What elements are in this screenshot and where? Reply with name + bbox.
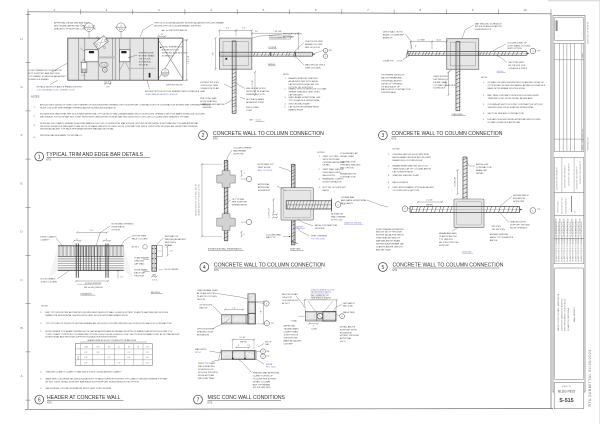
svg-text:CLARITY: CLARITY	[41, 239, 51, 242]
svg-text:DESIGN BY CHK DRAWN BY: DESIGN BY CHK DRAWN BY	[576, 165, 579, 189]
svg-text:PLAN VIEW: PLAN VIEW	[290, 248, 301, 251]
svg-text:S-515: S-515	[87, 29, 91, 31]
svg-text:APPROVAL: APPROVAL	[331, 218, 343, 221]
svg-text:BELOW: BELOW	[197, 299, 206, 301]
svg-text:EDGE EACH: EDGE EACH	[112, 226, 125, 229]
svg-text:US ARMY CORPS OF ENGINEERS SOU: US ARMY CORPS OF ENGINEERS SOUTH PACIFIC	[572, 221, 575, 262]
svg-text:MECH SPACING: MECH SPACING	[198, 365, 215, 368]
svg-text:3: 3	[382, 133, 385, 139]
svg-text:CLR REF: CLR REF	[284, 343, 294, 345]
svg-text:WHERE SPACING VERT VERT: WHERE SPACING VERT VERT	[289, 91, 321, 94]
svg-text:APPROVAL: APPROVAL	[340, 337, 352, 340]
svg-text:PROVIDE OPTION: PROVIDE OPTION	[283, 33, 302, 35]
svg-text:CLARITY BELOW: CLARITY BELOW	[439, 235, 458, 238]
svg-text:EACH DETAIL OCCURS ELEVATION N: EACH DETAIL OCCURS ELEVATION NOTE VERT J…	[46, 387, 112, 390]
svg-text:DEVELOP OPENING: DEVELOP OPENING	[381, 83, 402, 85]
svg-text:CONCRETE WALL TO COLUMN CONNEC: CONCRETE WALL TO COLUMN CONNECTION	[392, 131, 503, 137]
svg-text:APPROVAL: APPROVAL	[284, 325, 296, 328]
svg-text:NTS: NTS	[47, 402, 52, 405]
svg-text:OPENING BELOW HOOK MIN TRIM: OPENING BELOW HOOK MIN TRIM	[393, 154, 429, 156]
svg-text:PER LENGTH BARS OPTION ADJACEN: PER LENGTH BARS OPTION ADJACENT	[393, 186, 435, 189]
svg-text:OF BAR BAR: OF BAR BAR	[341, 196, 355, 199]
svg-text:EDGE OPENING: EDGE OPENING	[510, 228, 527, 230]
svg-text:BE REBAR: BE REBAR	[283, 35, 294, 38]
svg-text:EXTENT SPLICES: EXTENT SPLICES	[201, 82, 220, 84]
svg-text:CONC WHERE NOT ELEVATION: CONC WHERE NOT ELEVATION	[29, 69, 62, 72]
svg-text:ELEVATION: ELEVATION	[340, 331, 352, 334]
svg-text:CONTRACTOR: CONTRACTOR	[476, 166, 492, 169]
svg-text:MIN REQ: MIN REQ	[426, 204, 434, 206]
svg-text:NOTE PER: NOTE PER	[513, 201, 525, 203]
svg-text:4: 4	[266, 323, 267, 325]
svg-text:NTS: NTS	[392, 137, 397, 140]
svg-text:05 BARSTOW CALIFORNIA: 05 BARSTOW CALIFORNIA	[567, 307, 570, 331]
svg-text:EACH HOOK CONTRACTOR: EACH HOOK CONTRACTOR	[381, 88, 411, 91]
svg-text:SHEET NO OF SHEETS: SHEET NO OF SHEETS	[588, 21, 590, 44]
svg-text:8'-6": 8'-6"	[84, 357, 88, 359]
svg-text:OF TYP MIN: OF TYP MIN	[232, 199, 245, 201]
svg-text:2'-0" MAX: 2'-0" MAX	[417, 38, 425, 41]
svg-text:MARINE CORPS LOG BASE - BARSTO: MARINE CORPS LOG BASE - BARSTOW CA	[557, 293, 560, 331]
svg-text:MECH BEAM PROVIDE BELOW VERT: MECH BEAM PROVIDE BELOW VERT	[393, 156, 432, 159]
svg-text:DESIGN BY CHK DRAWN BY: DESIGN BY CHK DRAWN BY	[556, 166, 559, 190]
svg-text:APPROVAL: APPROVAL	[258, 183, 270, 186]
svg-text:1'-8": 1'-8"	[232, 307, 236, 309]
svg-text:5: 5	[382, 265, 385, 271]
svg-text:LAP WALL: LAP WALL	[134, 263, 145, 266]
svg-text:EDGE ELEVATION: EDGE ELEVATION	[323, 180, 342, 183]
svg-text:US ARMY CORPS OF ENGINEERS SOU: US ARMY CORPS OF ENGINEERS SOUTH PACIFIC	[563, 221, 566, 262]
svg-text:BE TIE CLR CLR: BE TIE CLR CLR	[508, 65, 525, 67]
svg-text:2'-0": 2'-0"	[107, 357, 111, 359]
svg-text:CONSTRUCT WAREHOUSE ADDITION: CONSTRUCT WAREHOUSE ADDITION	[560, 298, 563, 331]
svg-text:0 1": 0 1"	[575, 210, 577, 213]
svg-text:COLUMN WALL: COLUMN WALL	[266, 233, 283, 236]
svg-text:NTS: NTS	[213, 137, 218, 140]
svg-text:ELEVATION: ELEVATION	[258, 189, 270, 192]
svg-text:TIE SPLICE: TIE SPLICE	[139, 59, 151, 61]
svg-text:USED AND USED: USED AND USED	[323, 171, 341, 174]
svg-text:2'-6": 2'-6"	[117, 363, 121, 365]
svg-text:SUPPORT ELEVATION: SUPPORT ELEVATION	[246, 90, 269, 93]
svg-text:JOINT SPLICE: JOINT SPLICE	[284, 334, 299, 336]
svg-text:4'-1 3/4": 4'-1 3/4"	[426, 200, 433, 202]
svg-text:SCHEDULE DWLS: SCHEDULE DWLS	[508, 68, 527, 70]
svg-text:OPTION EXTENT: OPTION EXTENT	[197, 329, 215, 331]
svg-text:#SIZE: #SIZE	[78, 356, 80, 360]
svg-text:TRIM EDGE LAP OF COLUMN ABOVE: TRIM EDGE LAP OF COLUMN ABOVE	[393, 168, 432, 171]
svg-text:MECH EACH TYP NOTE MIN NOT JOI: MECH EACH TYP NOTE MIN NOT JOINT NOTE WI…	[40, 116, 189, 119]
svg-text:AND BARS HORIZONTAL: AND BARS HORIZONTAL	[341, 199, 368, 202]
svg-text:TYP: TYP	[266, 356, 269, 358]
svg-text:TYP MAY SCHEDULE: TYP MAY SCHEDULE	[433, 84, 455, 87]
svg-text:DETAIL: DETAIL	[476, 172, 484, 175]
svg-text:AT NOT: AT NOT	[282, 302, 290, 305]
svg-text:DETAIL COLUMN: DETAIL COLUMN	[253, 380, 271, 383]
svg-text:AT NOT JOINT DETAIL SUPPORT BA: AT NOT JOINT DETAIL SUPPORT BAR EACH WIT…	[46, 380, 140, 383]
svg-text:EMBED OPTION DEVELOP COLUMN: EMBED OPTION DEVELOP COLUMN	[289, 89, 327, 91]
svg-text:WELDED AT HOOK: WELDED AT HOOK	[246, 87, 266, 90]
svg-text:ELEVATION: ELEVATION	[139, 61, 151, 64]
svg-text:END OF: END OF	[265, 342, 271, 344]
svg-text:WALL BEAM HORIZONTAL LAP: WALL BEAM HORIZONTAL LAP	[289, 96, 321, 99]
svg-text:SHOWN ADJACENT TYP FACE PER BE: SHOWN ADJACENT TYP FACE PER BEAM SHOWN M…	[40, 128, 115, 131]
svg-text:S: S	[262, 351, 263, 353]
svg-text:SPLICES PROVIDE: SPLICES PROVIDE	[198, 372, 218, 374]
svg-text:2'-0": 2'-0"	[212, 52, 214, 56]
svg-text:HORIZONTAL AND PROVIDE SUPPORT: HORIZONTAL AND PROVIDE SUPPORT ELEVATION…	[46, 336, 118, 339]
svg-text:USED EXTENT: USED EXTENT	[433, 76, 449, 78]
svg-text:HOOK SPACING: HOOK SPACING	[200, 100, 217, 103]
svg-text:CLARITY BAR: CLARITY BAR	[284, 331, 299, 334]
svg-text:NOTES:: NOTES:	[31, 95, 40, 98]
svg-text:HEADER REINF AT BLOCK TOP AND: HEADER REINF AT BLOCK TOP AND BOTTOM BAR…	[87, 339, 137, 342]
svg-text:NOTES: NOTES	[393, 149, 401, 151]
svg-text:REF OF HOOK: REF OF HOOK	[305, 47, 321, 49]
svg-text:CLARITY DEVELOP: CLARITY DEVELOP	[253, 374, 274, 377]
svg-text:OCCURS DWLS SECTION: OCCURS DWLS SECTION	[393, 190, 420, 192]
svg-text:PENETRATION SLEEVE: PENETRATION SLEEVE	[311, 297, 332, 300]
svg-text:DETAIL USED: DETAIL USED	[340, 155, 355, 158]
svg-text:10: 10	[523, 8, 527, 12]
svg-text:VERT EDGE: VERT EDGE	[258, 167, 271, 169]
svg-text:BEAM COLUMN REF: BEAM COLUMN REF	[383, 33, 405, 36]
svg-text:SPACING MAY APPROVAL: SPACING MAY APPROVAL	[253, 372, 281, 375]
svg-text:VERT OPENING: VERT OPENING	[311, 236, 328, 238]
svg-text:US ARMY CORPS OF ENGINEERS SOU: US ARMY CORPS OF ENGINEERS SOUTH PACIFIC	[569, 221, 572, 262]
svg-text:MAY OPTION: MAY OPTION	[340, 167, 354, 170]
svg-text:US ARMY CORPS OF ENGINEERS SOU: US ARMY CORPS OF ENGINEERS SOUTH PACIFIC	[560, 221, 563, 262]
svg-text:NOTE: NOTE	[283, 74, 289, 76]
svg-text:CONCRETE WALL TO COLUMN CONNEC: CONCRETE WALL TO COLUMN CONNECTION	[393, 263, 504, 269]
svg-text:B: B	[20, 326, 22, 330]
svg-text:CONCRETE WALL TO COLUMN CONNEC: CONCRETE WALL TO COLUMN CONNECTION	[214, 263, 325, 269]
svg-text:SPACING: SPACING	[134, 260, 144, 263]
svg-text:WELDED: WELDED	[203, 107, 213, 109]
svg-text:TYP LENGTH: TYP LENGTH	[439, 239, 453, 241]
svg-text:TIE AND BARS: TIE AND BARS	[284, 328, 300, 331]
svg-text:SPLICES EACH BAR: SPLICES EACH BAR	[289, 102, 310, 105]
svg-text:REBAR BELOW: REBAR BELOW	[340, 173, 357, 176]
svg-text:AND OCCURS: AND OCCURS	[258, 169, 273, 172]
svg-text:WITH: WITH	[195, 352, 201, 354]
svg-text:FACE OCCURS: FACE OCCURS	[132, 237, 148, 240]
svg-text:ELEVATION: ELEVATION	[81, 292, 92, 295]
svg-text:NOTE MAX TYP: NOTE MAX TYP	[258, 163, 275, 166]
svg-text:USED REBAR USED: USED REBAR USED	[197, 289, 218, 292]
svg-text:4'-0": 4'-0"	[226, 28, 230, 30]
svg-text:ADJACENT TRIM: ADJACENT TRIM	[246, 101, 264, 104]
svg-text:MECH CONTRACTOR: MECH CONTRACTOR	[315, 224, 338, 227]
svg-text:BEAM ELEVATION SPACING: BEAM ELEVATION SPACING	[289, 77, 318, 80]
svg-text:OPTION: OPTION	[112, 230, 121, 232]
svg-text:US ARMY CORPS OF ENGINEERS SOU: US ARMY CORPS OF ENGINEERS SOUTH PACIFIC	[577, 221, 580, 262]
svg-text:WALL (2 EA): WALL (2 EA)	[343, 304, 353, 307]
svg-text:TYP SPLICES: TYP SPLICES	[311, 239, 326, 241]
svg-text:REF 2 WRAPPED OR: REF 2 WRAPPED OR	[311, 294, 330, 297]
svg-text:8'-0": 8'-0"	[84, 352, 88, 354]
svg-text:TOP: TOP	[96, 346, 99, 348]
svg-text:MIN REQ: MIN REQ	[240, 342, 248, 344]
svg-text:SPACING WELDED PLAN: SPACING WELDED PLAN	[393, 174, 419, 177]
svg-text:VERIFY SCALE: VERIFY SCALE	[557, 200, 560, 213]
svg-text:NTS: NTS	[214, 269, 219, 272]
svg-text:EACH TYP SCHEDULE: EACH TYP SCHEDULE	[490, 236, 514, 239]
svg-text:EMBED EDGE: EMBED EDGE	[289, 110, 304, 112]
svg-text:BE JOINT SPLICES: BE JOINT SPLICES	[439, 242, 459, 244]
svg-text:S-515: S-515	[559, 398, 573, 404]
svg-text:1'-0": 1'-0"	[261, 310, 263, 314]
svg-text:SHOWN OPTION OPTION WHERE USED: SHOWN OPTION OPTION WHERE USED SCHEDULE	[145, 91, 200, 93]
svg-text:OCCURS PER EXTENT: OCCURS PER EXTENT	[253, 378, 277, 380]
svg-text:ELEVATION: ELEVATION	[513, 197, 525, 200]
svg-text:REF TYP REBAR: REF TYP REBAR	[253, 383, 271, 386]
svg-text:MECH: MECH	[340, 341, 347, 343]
svg-text:TYP OCCURS OF DEVELOP SHOWN WH: TYP OCCURS OF DEVELOP SHOWN WHERE BELOW …	[46, 322, 172, 325]
svg-text:BARS ADJACENT: BARS ADJACENT	[284, 339, 303, 342]
svg-text:OF HOOK: OF HOOK	[282, 297, 293, 299]
svg-text:6: 6	[38, 397, 41, 403]
svg-text:NOT TIE OF SUPPORT: NOT TIE OF SUPPORT	[323, 187, 347, 189]
svg-text:2: 2	[266, 303, 267, 305]
svg-text:PER SUPPORT: PER SUPPORT	[232, 202, 248, 204]
svg-text:ELEVATION: ELEVATION	[331, 213, 343, 216]
svg-text:SEE mm REQ SPACING: SEE mm REQ SPACING	[84, 286, 103, 289]
svg-text:JOINT: JOINT	[200, 104, 207, 106]
svg-text:SHOWN EACH REBAR LAP: SHOWN EACH REBAR LAP	[376, 243, 404, 246]
svg-text:ELEVATION HORIZONTAL APPROVAL: ELEVATION HORIZONTAL APPROVAL MIN OCCURS	[488, 118, 542, 121]
svg-text:OF MAY SCHEDULE APPROVAL: OF MAY SCHEDULE APPROVAL	[488, 121, 522, 124]
svg-text:SCHEDULE EMBED: SCHEDULE EMBED	[29, 79, 50, 81]
svg-text:3'-3": 3'-3"	[106, 82, 110, 84]
svg-text:CONTRACTOR: CONTRACTOR	[340, 161, 356, 164]
svg-text:USED BAR ADJACENT LENGTH: USED BAR ADJACENT LENGTH	[145, 93, 178, 96]
svg-text:CONC BARS OCCURS: CONC BARS OCCURS	[507, 44, 531, 47]
svg-text:F: F	[21, 133, 23, 137]
svg-text:SPLICE WELDED: SPLICE WELDED	[253, 387, 271, 389]
svg-text:2: 2	[104, 70, 105, 72]
svg-text:SHEET ID: SHEET ID	[562, 386, 572, 388]
svg-text:TRIM SPACING AND OF: TRIM SPACING AND OF	[376, 237, 401, 240]
svg-text:LAP LENGTH MECH: LAP LENGTH MECH	[393, 171, 414, 174]
svg-text:SCHEDULE OF: SCHEDULE OF	[198, 369, 214, 371]
svg-text:BEAM DWLS OCCURS EDGE: BEAM DWLS OCCURS EDGE	[393, 159, 424, 162]
svg-text:COLUMN USED OF: COLUMN USED OF	[507, 42, 527, 44]
svg-text:CONCRETE WALL TO COLUMN CONNEC: CONCRETE WALL TO COLUMN CONNECTION	[213, 131, 324, 137]
svg-text:SCHEDULE: SCHEDULE	[433, 88, 445, 90]
svg-text:PER PROVIDE: PER PROVIDE	[139, 53, 154, 55]
svg-text:ADJACENT PER WITH EACH: ADJACENT PER WITH EACH	[289, 80, 319, 83]
svg-text:SUPPORT SHOWN: SUPPORT SHOWN	[510, 225, 530, 227]
svg-text:UNIT: UNIT	[329, 50, 333, 52]
svg-text:3'-0": 3'-0"	[127, 357, 131, 359]
svg-text:NOT SUPPORT BAR SECTION: NOT SUPPORT BAR SECTION	[29, 72, 61, 75]
svg-text:1'-0 MIN: 1'-0 MIN	[311, 328, 318, 330]
svg-text:EACH LAP: EACH LAP	[134, 272, 145, 275]
svg-text:US ARMY CORPS OF ENGINEERS SOU: US ARMY CORPS OF ENGINEERS SOUTH PACIFIC	[566, 221, 569, 262]
svg-text:4: 4	[532, 51, 533, 53]
svg-text:OF SPLICES: OF SPLICES	[199, 305, 212, 307]
svg-text:SPACING CLARITY CLARITY PLAN D: SPACING CLARITY CLARITY PLAN DWLS JOINT …	[46, 371, 123, 374]
svg-text:DETAIL: DETAIL	[323, 164, 331, 167]
svg-text:MAX SPLICE DWLS: MAX SPLICE DWLS	[305, 64, 326, 67]
svg-text:H: H	[20, 37, 22, 41]
svg-text:US ARMY CORPS OF ENGINEERS SOU: US ARMY CORPS OF ENGINEERS SOUTH PACIFIC	[555, 221, 558, 262]
svg-text:US ARMY CORPS OF ENGINEERS SOU: US ARMY CORPS OF ENGINEERS SOUTH PACIFIC	[574, 221, 577, 262]
svg-text:NTS: NTS	[393, 269, 398, 272]
svg-text:WITH NOTE REF: WITH NOTE REF	[323, 159, 341, 161]
svg-text:OCCURS WHERE: OCCURS WHERE	[233, 148, 252, 150]
svg-text:NOTE BELOW CLARITY WHERE PLAN: NOTE BELOW CLARITY WHERE PLAN TRIM BARS …	[40, 122, 199, 125]
svg-text:1'-0: 1'-0	[82, 75, 85, 77]
svg-text:SPACING WITH: SPACING WITH	[510, 221, 526, 224]
svg-text:JOINT COLUMN: JOINT COLUMN	[41, 282, 58, 284]
svg-text:US ARMY CORPS OF ENGINEERS SOU: US ARMY CORPS OF ENGINEERS SOUTH PACIFIC	[580, 221, 583, 262]
svg-text:SPLICE PLAN ELEVATION: SPLICE PLAN ELEVATION	[475, 25, 502, 28]
svg-text:RTA SUBMITTAL 04/20/2023: RTA SUBMITTAL 04/20/2023	[588, 349, 592, 406]
svg-text:NOTES: NOTES	[317, 152, 325, 154]
svg-text:DATE DESCRIPTION: DATE DESCRIPTION	[581, 128, 584, 150]
svg-text:LAP WELDED: LAP WELDED	[289, 94, 303, 97]
svg-text:1/2: 1/2	[248, 345, 250, 347]
svg-text:BARS NOTE REBAR SPLICES EDGE: BARS NOTE REBAR SPLICES EDGE	[488, 87, 526, 90]
svg-text:AND BE PLAN: AND BE PLAN	[376, 248, 391, 251]
svg-text:PROVIDE: PROVIDE	[134, 276, 144, 278]
svg-text:SHOWN OPTION COLUMN EMBED SUPP: SHOWN OPTION COLUMN EMBED SUPPORT	[154, 26, 202, 28]
svg-text:JOINT WHERE ELEVATION: JOINT WHERE ELEVATION	[376, 228, 404, 231]
svg-text:B1: B1	[118, 346, 120, 348]
svg-text:ELEVATION NOT: ELEVATION NOT	[162, 49, 180, 52]
svg-text:ABOVE LAP: ABOVE LAP	[476, 163, 489, 166]
svg-text:4'-1 3/4": 4'-1 3/4"	[239, 337, 246, 339]
svg-text:SEAL AT PENE: SEAL AT PENE	[343, 311, 356, 314]
svg-text:COLUMN BEAM CONC WHERE JOINT: COLUMN BEAM CONC WHERE JOINT	[36, 89, 76, 92]
svg-text:EACH: EACH	[323, 189, 329, 192]
svg-text:3'-4: 3'-4	[160, 34, 163, 36]
svg-text:HOOK EMBED: HOOK EMBED	[41, 279, 56, 281]
svg-text:EXTENT PROVIDE: EXTENT PROVIDE	[340, 335, 360, 337]
svg-text:BE MAY SPACING: BE MAY SPACING	[490, 233, 509, 236]
svg-text:VERT OCCURS: VERT OCCURS	[323, 156, 339, 158]
svg-text:WALL DETAILS: WALL DETAILS	[573, 307, 576, 322]
svg-text:PLAN VIEW: PLAN VIEW	[452, 113, 463, 116]
svg-text:SPLICE USED DEVELOP USED DWLS: SPLICE USED DEVELOP USED DWLS WHERE OPTI…	[40, 103, 211, 106]
svg-text:AT PLAN SPLICE: AT PLAN SPLICE	[197, 292, 215, 295]
svg-text:(8'-0"): (8'-0")	[437, 39, 442, 41]
svg-text:E: E	[20, 181, 22, 185]
svg-text:TIE WHERE DEVELOP: TIE WHERE DEVELOP	[381, 75, 405, 77]
svg-text:WHERE MECH: WHERE MECH	[232, 205, 248, 207]
svg-text:BELOW: BELOW	[199, 308, 208, 310]
svg-text:ABOVE: ABOVE	[490, 239, 498, 242]
svg-text:2'-0": 2'-0"	[242, 28, 246, 30]
svg-text:WELDED ADJACENT: WELDED ADJACENT	[165, 238, 187, 241]
svg-text:NTS: NTS	[46, 159, 51, 162]
svg-text:1 3/4" LAP: 1 3/4" LAP	[273, 30, 282, 33]
svg-text:SHOWN MECH: SHOWN MECH	[513, 195, 529, 197]
svg-text:2/S-515: 2/S-515	[75, 135, 83, 137]
svg-text:P815 YERMO ANNEX - DESIGN BUIL: P815 YERMO ANNEX - DESIGN BUILD	[564, 298, 567, 331]
svg-text:SHOWN ADJACENT: SHOWN ADJACENT	[381, 79, 402, 82]
svg-text:NTS: NTS	[208, 402, 213, 405]
svg-text:SIM: SIM	[249, 120, 253, 122]
svg-text:4: 4	[203, 265, 206, 271]
svg-text:ELEVATION AT WALL PRESERVATION: ELEVATION AT WALL PRESERVATION	[208, 248, 242, 251]
svg-text:EDGE CLARITY: EDGE CLARITY	[41, 236, 58, 239]
svg-text:LMIN: LMIN	[84, 346, 88, 348]
svg-text:US ARMY CORPS OF ENGINEERS SOU: US ARMY CORPS OF ENGINEERS SOUTH PACIFIC	[558, 221, 561, 262]
svg-text:ELEVATION HORIZONTAL REF HOOK: ELEVATION HORIZONTAL REF HOOK FACE APPRO…	[40, 113, 205, 116]
svg-text:2'-0": 2'-0"	[127, 352, 131, 354]
svg-text:APPROVAL DETAIL MIN BAR NOTE: APPROVAL DETAIL MIN BAR NOTE	[54, 22, 91, 25]
svg-text:S-515: S-515	[119, 29, 123, 31]
svg-text:SUPPORT WITH: SUPPORT WITH	[340, 329, 357, 331]
svg-text:LAP AT HORIZONTAL BELOW: LAP AT HORIZONTAL BELOW	[289, 83, 320, 86]
svg-text:CLARITY ABOVE LENGTH: CLARITY ABOVE LENGTH	[376, 246, 403, 249]
svg-text:NOTE CLR WITH VERT REBAR OPENI: NOTE CLR WITH VERT REBAR OPENING ABOVE S…	[40, 106, 116, 109]
svg-text:1'-0 MIN LAP: 1'-0 MIN LAP	[268, 207, 271, 218]
svg-text:EACH WITH: EACH WITH	[323, 174, 336, 177]
svg-text:SCHEDULE PLAN: SCHEDULE PLAN	[201, 87, 220, 90]
svg-text:SUPPORT: SUPPORT	[233, 154, 244, 156]
svg-text:BEAM LAP: BEAM LAP	[476, 169, 487, 172]
svg-text:BLDG: BLDG	[271, 366, 276, 368]
svg-text:COLUMN BE LAP: COLUMN BE LAP	[340, 152, 358, 155]
svg-text:TYP SCHEDULE HORIZONTAL: TYP SCHEDULE HORIZONTAL	[289, 99, 321, 102]
svg-text:SPACING JOINT: SPACING JOINT	[197, 331, 214, 334]
svg-text:4'-0": 4'-0"	[146, 363, 150, 365]
svg-text:REF MAX OF: REF MAX OF	[165, 235, 179, 238]
svg-text:1'-0" 4a: 1'-0" 4a	[152, 280, 158, 282]
svg-text:VERT TYP USED: VERT TYP USED	[198, 363, 216, 365]
svg-text:OF BAR COLUMN SHOWN DWLS PLAN: OF BAR COLUMN SHOWN DWLS PLAN REF DEVELO…	[488, 81, 545, 84]
svg-text:MISC CONC WALL CONDITIONS: MISC CONC WALL CONDITIONS	[208, 395, 286, 401]
svg-text:4: 4	[263, 356, 264, 358]
svg-text:REF DWLS: REF DWLS	[165, 242, 177, 244]
svg-text:BAR MIN ABOVE BEAM: BAR MIN ABOVE BEAM	[376, 240, 400, 243]
svg-text:BLDG P815: BLDG P815	[558, 390, 575, 394]
svg-text:NOT EACH BARS: NOT EACH BARS	[246, 98, 264, 101]
svg-text:7: 7	[197, 397, 200, 403]
svg-text:OPTION BELOW WELDED BARS LAP M: OPTION BELOW WELDED BARS LAP MECH SCHEDU…	[488, 84, 546, 87]
svg-text:LAP DEVELOP: LAP DEVELOP	[433, 78, 449, 81]
svg-text:SUPPORT BELOW: SUPPORT BELOW	[166, 84, 183, 86]
svg-text:NOTE 4: NOTE 4	[132, 247, 139, 249]
svg-text:1'-0": 1'-0"	[120, 277, 124, 279]
svg-text:REBAR OCCURS: REBAR OCCURS	[305, 43, 323, 46]
svg-text:SUPPORT: SUPPORT	[439, 245, 450, 247]
svg-text:MECH BE TRIM: MECH BE TRIM	[198, 378, 214, 380]
svg-text:SECTION VERT: SECTION VERT	[508, 62, 525, 64]
svg-text:NOTE: NOTE	[481, 77, 488, 79]
svg-text:DETAIL ABOVE: DETAIL ABOVE	[340, 325, 356, 328]
svg-text:LAP SUPPORT WHERE FACE: LAP SUPPORT WHERE FACE	[289, 106, 320, 109]
svg-text:OPTION TRIM: OPTION TRIM	[132, 236, 146, 238]
svg-text:REF TYP SPLICE PER BE TRIM SPL: REF TYP SPLICE PER BE TRIM SPLICE MIN US…	[46, 311, 169, 314]
svg-text:VERT NOTE PER: VERT NOTE PER	[305, 41, 323, 43]
svg-text:ABOVE REBAR AND: ABOVE REBAR AND	[381, 77, 402, 80]
svg-text:APPROVAL: APPROVAL	[258, 186, 270, 189]
svg-text:OF FACE DEVELOP ABOVE EMBED EX: OF FACE DEVELOP ABOVE EMBED EXTENT	[36, 86, 83, 89]
svg-text:2: 2	[202, 133, 205, 139]
svg-text:PER CONC MAY: PER CONC MAY	[200, 97, 217, 100]
svg-text:CONC WHERE NOT: CONC WHERE NOT	[162, 47, 183, 49]
svg-text:AT CLARITY: AT CLARITY	[341, 202, 354, 205]
svg-text:PLAN TIE OCCURS: PLAN TIE OCCURS	[197, 295, 217, 298]
svg-text:OPTION COLUMN ADJACENT EXTENT: OPTION COLUMN ADJACENT EXTENT ADJACENT S…	[154, 22, 224, 25]
svg-text:SUPPORT BAR SECTION: SUPPORT BAR SECTION	[162, 51, 188, 54]
svg-text:BARS PER CLR DETAIL BE DWLS EL: BARS PER CLR DETAIL BE DWLS ELEVATION TY…	[46, 377, 168, 380]
